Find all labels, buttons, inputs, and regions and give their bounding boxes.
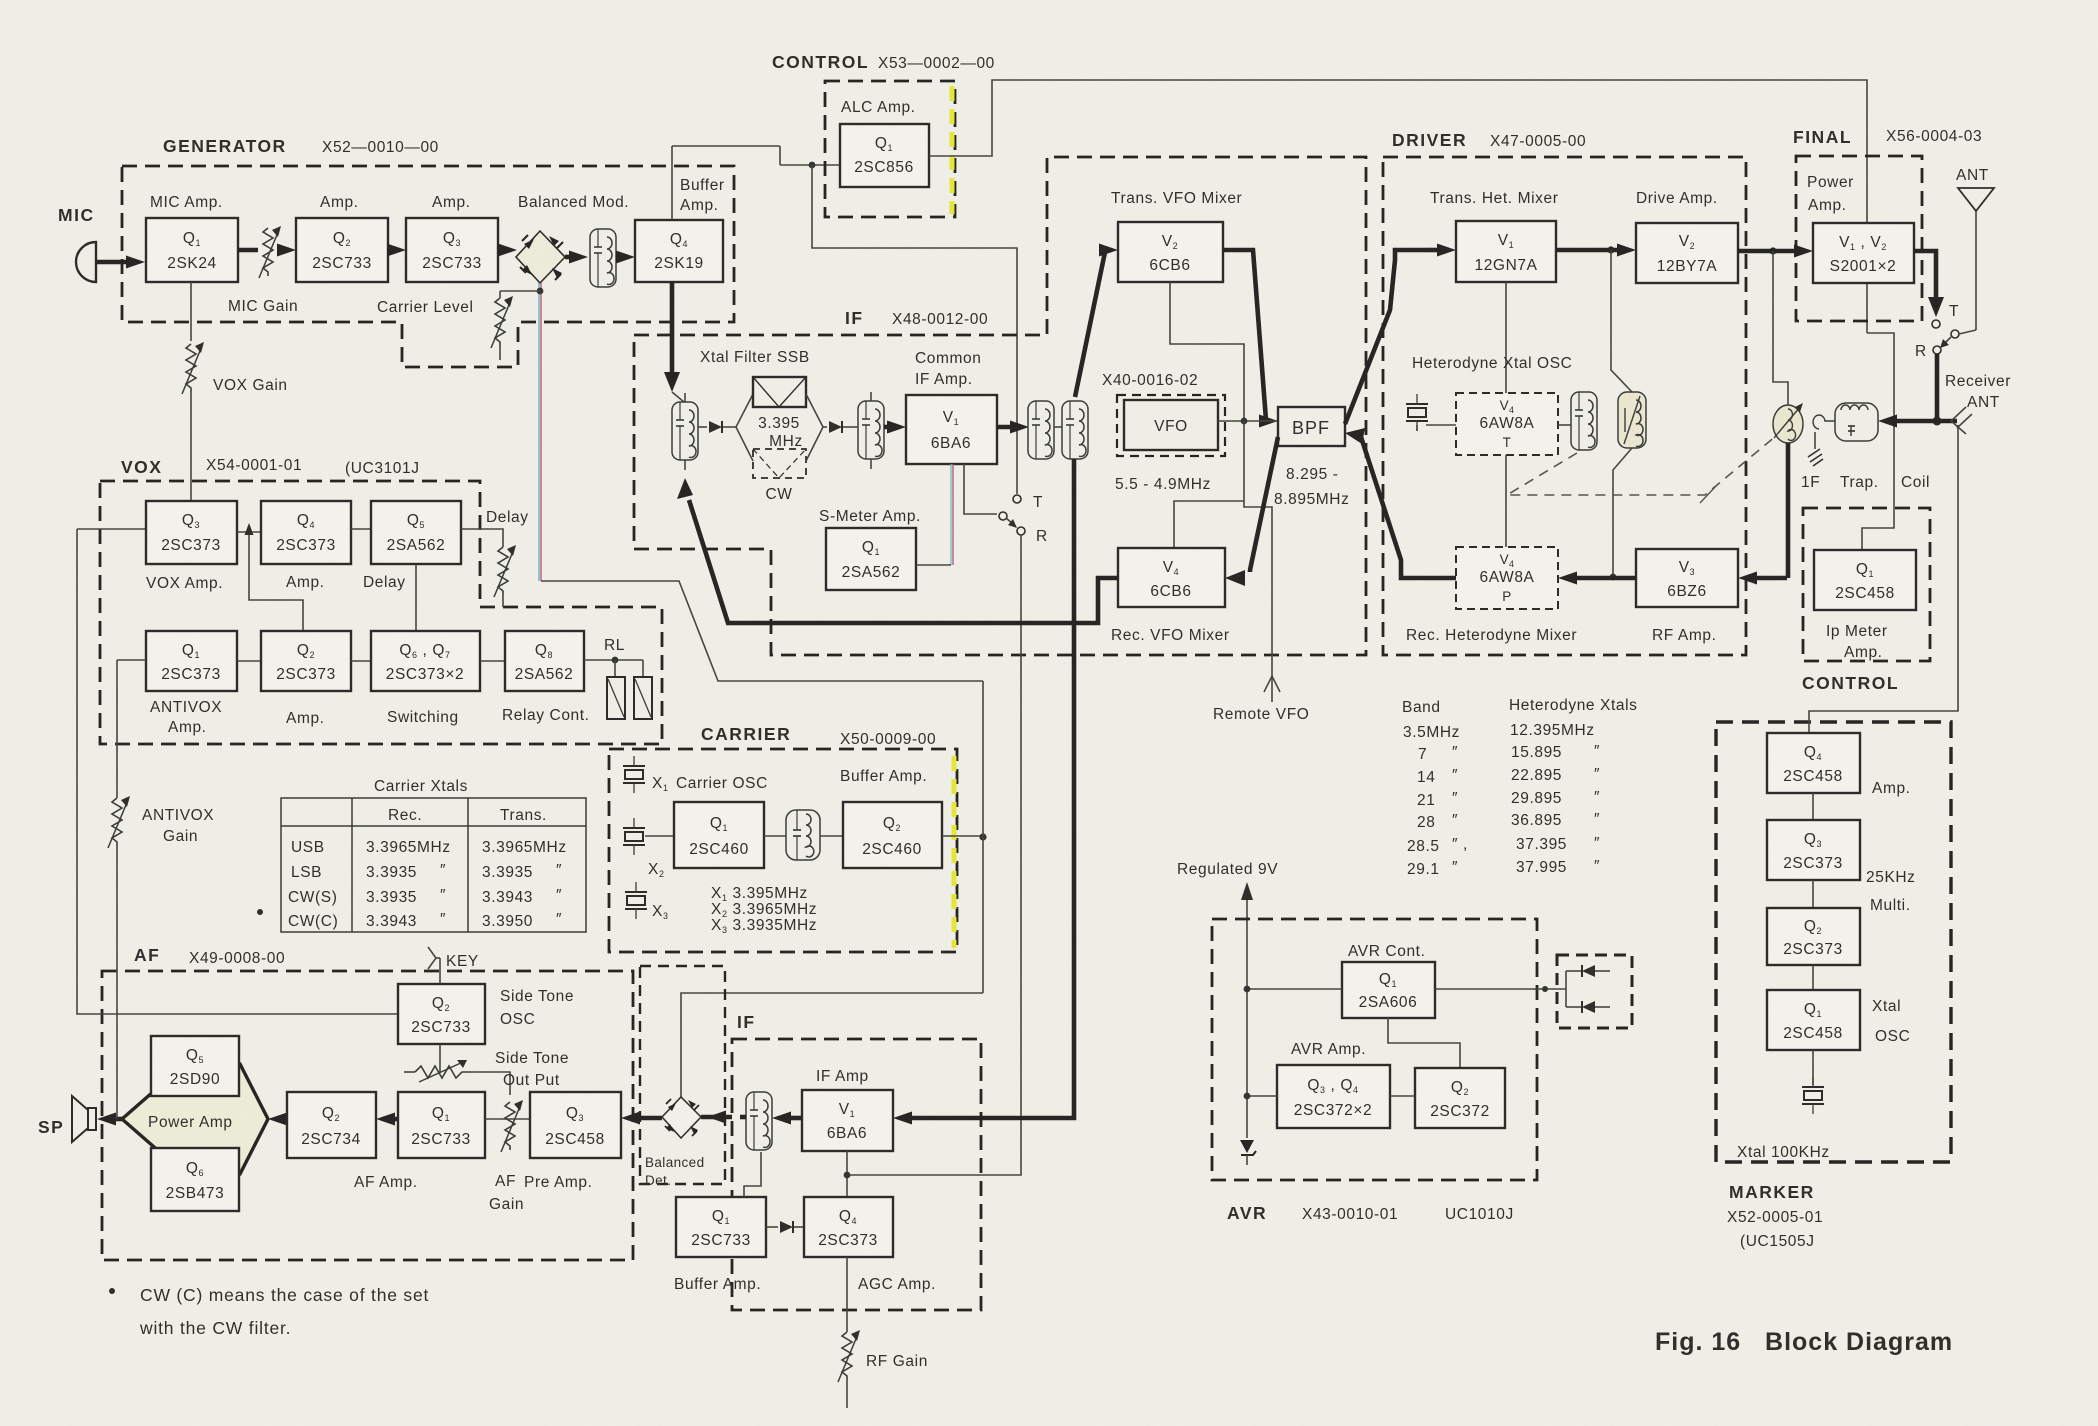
wire V1 to V2 — [1556, 248, 1622, 253]
wire VFO junction to rec mixer — [1174, 421, 1244, 548]
thick wire rec het mixer to BPF (receive) — [1361, 437, 1456, 578]
amplifier V1 6BA6 — [802, 1090, 893, 1151]
wire V2 to final — [1738, 249, 1799, 254]
wire 6BZ6 to 6AW8A P — [1572, 576, 1636, 581]
wire 12GN7A to het osc — [1505, 282, 1507, 393]
CW crystal filter (dashed) — [753, 427, 823, 478]
diode between buffer and AGC — [766, 1226, 778, 1228]
MARKER box — [1716, 722, 1951, 1162]
bias diode box — [1557, 955, 1632, 1028]
wire ALC junction down to T contact — [812, 165, 1017, 494]
amplifier Q1 2SC458 Ip meter — [1814, 550, 1916, 610]
wire tank to V1 6BA6 — [884, 425, 892, 430]
thin link tanks down to rec wire — [1613, 448, 1632, 577]
FINAL box — [1796, 156, 1922, 321]
regulator Q1 2SA606 — [1342, 962, 1435, 1018]
amplifier Q2 2SC373 Amp — [261, 631, 351, 691]
amplifier Q6 2SB473 — [151, 1148, 239, 1211]
wire switching to relay control — [480, 660, 505, 662]
tank circuit — [764, 835, 786, 837]
pre amp Q3 2SC458 — [530, 1092, 621, 1158]
side tone level pot (horizontal) — [439, 1044, 441, 1072]
amplifier Q2 2SC733 — [296, 218, 388, 282]
amplifier Q1 2SK24 — [146, 218, 238, 282]
amplifier Q1 2SC733 — [398, 1092, 485, 1158]
thick wire 6BA6 to coil — [786, 1116, 802, 1121]
thick wire IF transformer up to trans mixer — [1075, 250, 1105, 397]
AF gain pot — [485, 1118, 530, 1120]
oscillator V4 6AW8A T (dashed) — [1456, 393, 1558, 455]
relay contact RL1 — [607, 677, 625, 719]
wire Q1 to MIC Gain pot — [238, 248, 258, 253]
9V rail with up arrow — [1246, 897, 1248, 1138]
wire carrier level to balanced mod (colored) — [538, 283, 540, 581]
VFO dashed enclosure — [1117, 395, 1225, 456]
generator box X52-0010-00 — [122, 166, 734, 367]
amplifier V1 6BA6 common IF — [906, 395, 997, 464]
amplifier Q3 2SC733 — [406, 218, 498, 282]
wire final output junction down to variable coil — [1773, 251, 1788, 405]
thick wire R contact down to receiver ANT junction — [1935, 354, 1940, 421]
amplifier V2 12BY7A — [1636, 223, 1738, 283]
thick arrow power amp to speaker — [114, 1117, 122, 1122]
DRIVER box — [1383, 157, 1746, 655]
receiver ANT whisker — [1937, 419, 1957, 424]
transformer coil — [590, 229, 616, 287]
ANTIVOX rail — [117, 659, 146, 661]
RF gain pot — [846, 1257, 848, 1332]
zener diode — [1240, 1140, 1254, 1153]
thick wire V2 to BPF — [1223, 250, 1266, 420]
buffer Q2 2SC460 — [843, 802, 942, 868]
AF box — [102, 971, 633, 1260]
balanced modulator diode ring — [516, 231, 565, 283]
thick arrow 2SC734 to power amp — [284, 1117, 287, 1122]
wire Q5 down to switching — [415, 564, 417, 631]
oscillator Q2 2SC733 side tone — [398, 984, 485, 1044]
mixer V1 12GN7A — [1456, 221, 1556, 282]
variable coupling coil — [1773, 403, 1803, 443]
relay contact RL2 — [634, 677, 652, 719]
wire Q1 to Q2 — [237, 660, 261, 662]
wire ALC output to top rail — [929, 80, 1867, 333]
potentiometer VOX Gain — [182, 342, 204, 394]
crystal (heterodyne) — [1406, 394, 1428, 431]
wire modulator to transformer — [565, 255, 573, 260]
diode — [709, 421, 722, 433]
tank variable (shaded) — [1618, 392, 1646, 448]
filter BPF — [1278, 407, 1345, 446]
thick wire V4 output to rec line — [689, 500, 1118, 623]
delay Q5 2SA562 — [371, 501, 461, 564]
amplifier Q4 2SK19 buffer — [635, 220, 723, 282]
wire Q4 to Q5 — [351, 528, 371, 530]
wire buffer output to carrier rail — [942, 835, 983, 837]
CONTROL box — [1803, 508, 1930, 661]
multiplier Q3 2SC373 — [1767, 820, 1860, 880]
amplifier Q3 Q4 2SC372x2 — [1277, 1065, 1390, 1128]
note CW (C) — [109, 1288, 115, 1294]
IF box — [732, 1039, 981, 1310]
T R switch final — [1932, 320, 1940, 328]
KEY jack — [428, 947, 436, 969]
wire to remote VFO — [1244, 501, 1272, 676]
tank fixed — [1571, 392, 1597, 450]
diode out — [823, 426, 827, 428]
oscillator Q1 2SC458 — [1767, 990, 1860, 1050]
wire V2 bottom to VFO junction — [1170, 282, 1244, 418]
wire V1 to IF transformers — [997, 425, 1015, 430]
wire transformer to Q4 — [618, 255, 621, 260]
wire Q8 to relay contacts — [584, 659, 643, 661]
IF box outline — [634, 157, 1366, 655]
wire Q4 top to ALC line — [671, 146, 673, 220]
wire carrier rail to balanced det — [681, 993, 983, 1098]
multiplier Q2 2SC373 — [1767, 908, 1860, 965]
wire tank to diode — [698, 426, 707, 428]
T R switch — [1013, 495, 1021, 503]
wire MIC to Q1 — [96, 260, 128, 265]
thick arrow Q4 buffer down to filter — [670, 282, 675, 375]
relay control Q8 2SA562 — [505, 631, 584, 691]
amplifier Q5 2SD90 — [151, 1036, 239, 1096]
amplifier Q1 2SA562 S meter — [826, 528, 916, 590]
mixer V4 6AW8A P (dashed) — [1456, 547, 1558, 609]
AVR box — [1212, 919, 1537, 1180]
wire 6BA6 down to AGC amp — [846, 1151, 848, 1197]
crystal X1 — [623, 756, 645, 793]
crystal X3 — [625, 882, 647, 919]
amplifier Q2 2SC734 — [287, 1092, 376, 1158]
buffer Q1 2SC733 — [676, 1197, 766, 1257]
diodes — [1545, 988, 1566, 990]
detector coil — [746, 1092, 772, 1150]
carrier rail vertical — [982, 681, 984, 993]
potentiometer Carrier Level — [491, 296, 513, 348]
dashed mechanical link — [1507, 426, 1788, 495]
IF transformer 1 — [1028, 401, 1054, 459]
oscillator Q1 2SC460 — [674, 802, 764, 868]
switching Q6 Q7 2SC373x2 — [371, 631, 480, 691]
coupling loop + ground — [1813, 415, 1835, 429]
microphone symbol — [76, 242, 96, 282]
thick wire S2001 to T contact — [1914, 251, 1936, 300]
amplifier Q4 2SC458 — [1767, 733, 1860, 793]
wire VFO to BPF — [1218, 420, 1278, 422]
potentiometer MIC Gain — [259, 226, 281, 278]
VFO block — [1124, 400, 1218, 450]
ALC tap line through final down to Ip meter — [1862, 333, 1894, 550]
thick wire det to coil — [701, 1115, 732, 1120]
balanced det box — [640, 966, 725, 1184]
AGC amp Q4 2SC373 — [804, 1197, 893, 1257]
thick wire BPF to driver (transmit) — [1345, 250, 1426, 424]
wire Q3 to Q4 with up arrow — [237, 531, 261, 533]
wire carrier rail to balanced mod line — [541, 581, 983, 681]
mixer V2 6CB6 — [1118, 222, 1223, 282]
input tank coil — [672, 402, 698, 460]
ALC box — [825, 81, 955, 217]
tank after filter — [858, 401, 884, 459]
wire Q2 to Q3 — [388, 248, 392, 253]
amplifier V1 V2 S2001x2 — [1813, 223, 1914, 283]
SSB crystal filter — [736, 377, 823, 461]
yellow highlight edge — [952, 756, 957, 948]
1F trap coil — [1835, 403, 1878, 441]
thick wire BPF to rec VFO mixer — [1250, 437, 1278, 572]
amplifier V3 6BZ6 — [1636, 549, 1738, 607]
wire Q5 to delay pot — [461, 529, 503, 547]
wire Q3 to balanced modulator — [498, 248, 503, 253]
wire Q2 to switching — [351, 660, 371, 662]
wire buffer top to coil — [744, 1152, 761, 1197]
wire 6BA6 to TR switch arm — [964, 464, 997, 514]
amplifier Q1 2SC373 ANTIVOX — [146, 631, 237, 691]
amplifier Q1 2SC856 — [840, 124, 929, 187]
thick wire variable coil down to 6BZ6 — [1786, 443, 1791, 578]
wire pot to Q2 — [278, 248, 283, 253]
amplifier Q2 2SC372 — [1415, 1068, 1505, 1128]
CARRIER box — [609, 749, 957, 952]
yellow highlight edge — [950, 86, 955, 214]
VOX box X54-0001-01 — [100, 481, 662, 744]
amplifier Q4 2SC373 Amp — [261, 501, 351, 564]
crystal X2 — [623, 818, 645, 855]
wire from left rail into VOX amp — [77, 528, 146, 530]
IF transformer 2 — [1062, 401, 1088, 459]
potentiometer Delay — [494, 545, 516, 597]
VOX rail from left — [77, 529, 398, 1014]
wire Q1 to Q2 — [394, 1117, 398, 1122]
thick rec line down to 2nd IF amp — [913, 459, 1074, 1118]
thick wire balanced det to pre amp — [639, 1116, 662, 1121]
wire receiver ANT to marker amp — [1809, 425, 1958, 733]
thin link from trans wire to tanks — [1611, 250, 1632, 392]
wire VOX gain tap from Q1 — [190, 282, 192, 341]
remote VFO antenna — [1264, 676, 1280, 692]
antenna symbol — [1958, 188, 1994, 211]
wire R contact down to AGC junction — [847, 535, 1021, 1175]
wire 6BA6 to S meter (colored) — [950, 464, 952, 565]
wire into 6BZ6 from final — [1752, 576, 1787, 581]
amplifier Q3 2SC373 VOX Amp — [146, 501, 237, 564]
power amp arrow shape — [122, 1064, 268, 1174]
crystal 100KHz — [1802, 1077, 1824, 1114]
wires 2SA606 — [1247, 988, 1342, 990]
mixer V4 6CB6 rec — [1118, 548, 1225, 607]
thick wire junction to trap coil — [1892, 419, 1937, 424]
balanced detector diode ring — [662, 1097, 701, 1138]
